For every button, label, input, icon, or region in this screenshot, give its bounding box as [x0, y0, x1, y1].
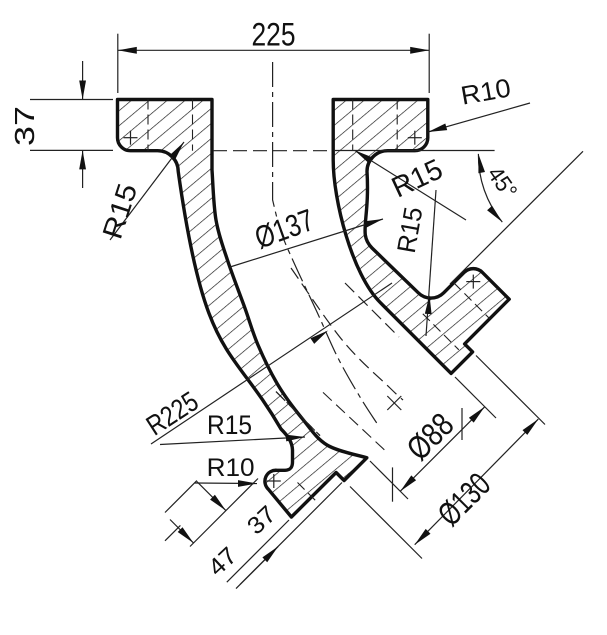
hidden line (dashed) right of axis — [291, 268, 403, 400]
right section: flange1 right + inner bend wall + flange2 upper half (hatched cut) — [333, 100, 509, 374]
svg-text:37: 37 — [9, 106, 40, 146]
radius leader R225 bend centerline — [151, 283, 392, 444]
flange2 axis center tick — [387, 396, 401, 410]
pipe axis centerline (dash-dot) — [273, 62, 378, 425]
radius leader R10 flange2 corner — [195, 482, 257, 485]
left section: flange1 left + outer bend wall + flange2 lower half (hatched cut) — [118, 100, 367, 518]
svg-text:R10: R10 — [207, 454, 255, 482]
dimension Ø130 spigot — [476, 356, 545, 425]
fillet center marks + — [124, 137, 138, 139]
dimension 37 (flange thickness) — [30, 99, 113, 101]
diameter leader Ø137 pipe outer — [230, 219, 383, 267]
dimension 225 (flange width) — [117, 34, 119, 93]
dimensions 37 and 47 (flange2 thickness) — [165, 481, 197, 513]
radius leader R15 inner-bend fillet — [426, 190, 436, 336]
radius leader R15 outer-bend flange2 fillet — [160, 437, 305, 445]
angle dimension 45° — [334, 150, 495, 152]
flange2 bolt holes (hidden dashed) — [454, 283, 490, 319]
radius leader R10 flange1 corner — [428, 103, 530, 132]
radius leader R15 left neck fillet — [110, 142, 184, 240]
dimension Ø88 bore — [455, 377, 496, 418]
hidden line (dashed) near bore right — [345, 283, 399, 337]
svg-text:R15: R15 — [207, 410, 252, 440]
radius leader R15 right neck fillet — [355, 150, 467, 220]
flange1 underside hidden line (dashed) — [213, 150, 333, 152]
svg-text:225: 225 — [252, 16, 296, 52]
flange1 bolt holes (hidden dashed) — [147, 100, 149, 151]
hidden line (dashed) lower-left of axis — [276, 392, 320, 436]
